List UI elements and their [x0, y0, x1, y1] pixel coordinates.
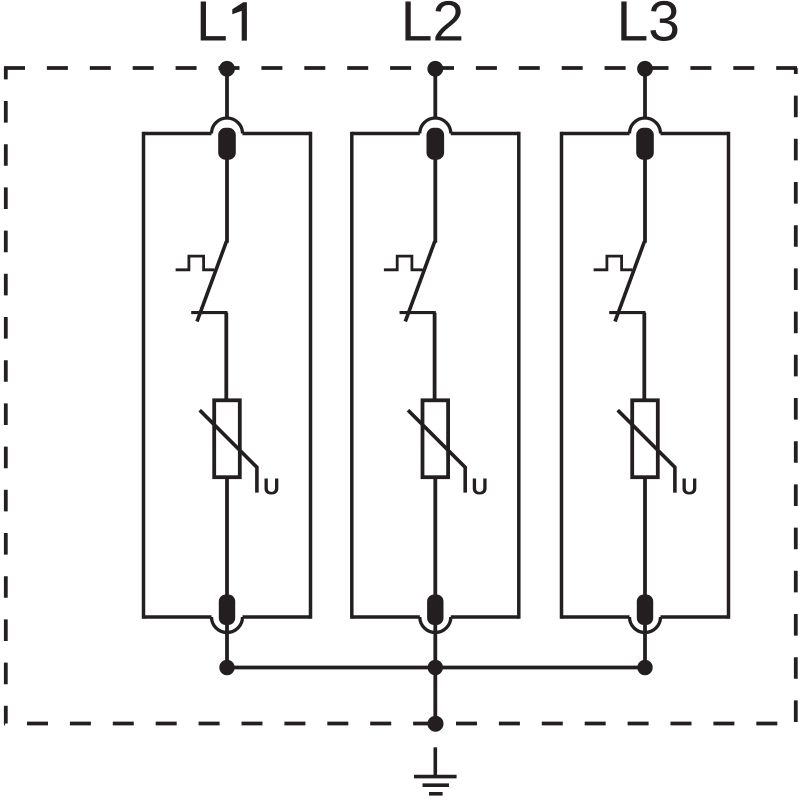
plug-in terminal socket arc (top, module 2) [420, 118, 451, 134]
thermal disconnect switch (module 1) blade [197, 241, 227, 321]
protection module box (SPD cartridge 3) [562, 132, 729, 619]
node PE (earth terminal on dashed border) [428, 716, 444, 732]
svg-text:U: U [471, 474, 488, 500]
junction on PE bus (column L1) [219, 660, 234, 675]
wire top pin to disconnect switch [433, 158, 437, 243]
thermal disconnect switch lower contact [400, 311, 436, 314]
plug-in terminal pin (bottom, module 2) [427, 595, 443, 626]
node L3 (line terminal on dashed enclosure border) [637, 61, 653, 77]
wire switch to varistor [224, 313, 228, 402]
plug-in terminal socket arc (bottom, module 2) [420, 617, 451, 633]
svg-text:L2: L2 [401, 0, 464, 54]
wire L2 terminal to module top socket [433, 69, 437, 120]
varistor body (module 2) [423, 400, 449, 477]
plug-in terminal pin (top, module 2) [427, 128, 445, 160]
protection module box (SPD cartridge 1) [144, 132, 311, 619]
svg-text:U: U [681, 474, 698, 500]
thermal disconnect switch (module 2) blade [405, 241, 435, 321]
thermal disconnect switch lower contact [191, 311, 227, 314]
plug-in terminal socket arc (bottom, module 1) [212, 617, 243, 633]
plug-in terminal socket arc (bottom, module 3) [630, 617, 661, 633]
wire varistor to bottom pin [643, 477, 647, 598]
plug-in terminal pin (top, module 3) [636, 128, 654, 160]
wire bottom pin to PE bus [643, 625, 647, 668]
wire L1 terminal to module top socket [225, 69, 229, 120]
plug-in terminal socket arc (top, module 1) [212, 118, 243, 134]
wire switch to varistor [642, 313, 646, 402]
varistor body (module 3) [632, 400, 658, 477]
varistor diagonal stroke [618, 410, 675, 492]
ground (earth symbol) [414, 747, 457, 794]
svg-text:L: L [196, 0, 228, 54]
varistor diagonal stroke [408, 410, 465, 492]
plug-in terminal socket arc (top, module 3) [630, 118, 661, 134]
wire top pin to disconnect switch [225, 158, 229, 243]
junction on PE bus (column L2) [428, 660, 443, 675]
svg-text:U: U [263, 474, 280, 500]
junction on PE bus (column L3) [637, 660, 652, 675]
wire varistor to bottom pin [433, 477, 437, 598]
wire varistor to bottom pin [225, 477, 229, 598]
wire PE bus down to enclosure border [433, 668, 437, 724]
thermal trip pulse symbol [594, 256, 633, 270]
wire L3 terminal to module top socket [643, 69, 647, 120]
wire switch to varistor [433, 313, 437, 402]
wire bottom pin to PE bus [433, 625, 437, 668]
node L2 (line terminal on dashed enclosure border) [427, 61, 443, 77]
varistor diagonal stroke [200, 410, 257, 492]
node L1 (line terminal on dashed enclosure border) [219, 61, 235, 77]
wire bottom pin to PE bus [225, 625, 229, 668]
plug-in terminal pin (top, module 1) [218, 128, 236, 160]
thermal disconnect switch lower contact [609, 311, 645, 314]
plug-in terminal pin (bottom, module 1) [219, 595, 235, 626]
thermal trip pulse symbol [176, 256, 215, 270]
thermal trip pulse symbol [384, 256, 423, 270]
thermal disconnect switch (module 3) blade [615, 241, 645, 321]
plug-in terminal pin (bottom, module 3) [637, 595, 653, 626]
varistor body (module 1) [214, 400, 240, 477]
PE bus wire connecting the three modules [227, 666, 645, 670]
svg-text:L3: L3 [617, 0, 680, 54]
wire top pin to disconnect switch [643, 158, 647, 243]
protection module box (SPD cartridge 2) [352, 132, 519, 619]
